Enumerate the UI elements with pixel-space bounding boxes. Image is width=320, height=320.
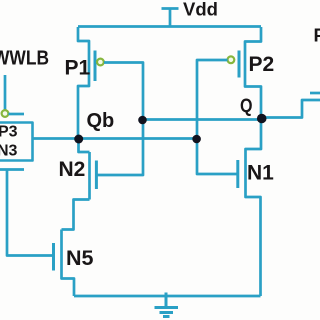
bubble P3 gate bbox=[2, 110, 9, 117]
svg-text:P3: P3 bbox=[0, 124, 18, 141]
transistor N1 bbox=[246, 119, 262, 297]
svg-text:N1: N1 bbox=[247, 162, 274, 185]
wire N2 drain bbox=[79, 139, 90, 152]
node junction dot B (Qb cross) bbox=[192, 135, 201, 144]
wire bottom rail bbox=[74, 295, 261, 298]
svg-text:N5: N5 bbox=[66, 246, 94, 270]
gate bar P1 bbox=[94, 51, 97, 82]
wire P2 gate to N1 gate (vertical 2) bbox=[197, 60, 237, 174]
svg-text:Qb: Qb bbox=[87, 110, 115, 132]
ground bbox=[155, 293, 179, 317]
svg-text:N2: N2 bbox=[59, 158, 86, 181]
transistor N2 source path bbox=[62, 200, 90, 230]
svg-text:WWLB: WWLB bbox=[0, 48, 49, 70]
transistor P1 bbox=[78, 27, 89, 139]
wire Vdd rail bbox=[78, 25, 261, 28]
wire Qb line bbox=[33, 137, 197, 140]
svg-text:P2: P2 bbox=[249, 53, 275, 76]
node junction dot A (Q cross) bbox=[138, 116, 147, 125]
gate bar N2 bbox=[95, 161, 98, 190]
svg-text:N3: N3 bbox=[0, 143, 18, 160]
wire right stub bbox=[310, 92, 320, 95]
wire P3 gate bar bbox=[9, 113, 25, 116]
svg-text:Vdd: Vdd bbox=[183, 0, 218, 20]
wire WWLB vertical bbox=[4, 75, 7, 110]
svg-text:P1: P1 bbox=[65, 57, 91, 80]
transmission gate box P3/N3 bbox=[0, 123, 33, 161]
Vdd symbol bbox=[162, 9, 179, 28]
transistor N2 channel bbox=[88, 152, 91, 200]
svg-text:F: F bbox=[314, 25, 320, 46]
wire node Q line bbox=[143, 100, 320, 120]
wire WWL: N3 gate bar, stem, to N5 gate bbox=[0, 170, 52, 256]
bubble P2 bbox=[228, 56, 235, 63]
transistor N5 bbox=[62, 230, 75, 297]
gate bar N5 bbox=[52, 243, 55, 271]
node Q dot bbox=[257, 114, 267, 124]
transistor P2 bbox=[245, 27, 261, 119]
wire P1 gate to N2 gate (vertical 1) bbox=[98, 63, 144, 176]
bubble P1 bbox=[97, 59, 104, 66]
node Qb dot bbox=[74, 135, 83, 144]
gate bar P2 bbox=[238, 51, 241, 78]
gate bar N1 bbox=[236, 160, 239, 188]
svg-text:Q: Q bbox=[240, 96, 253, 117]
